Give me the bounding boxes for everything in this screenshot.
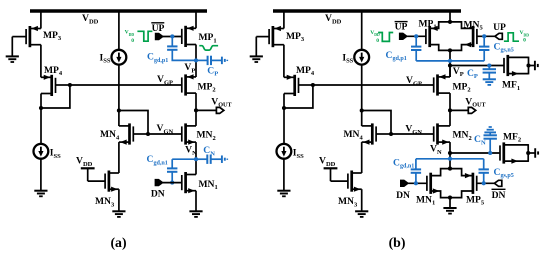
node DN label (b)	[396, 190, 410, 201]
node VDD tick label MN3 (b)	[319, 156, 336, 168]
node switch top junction bottom (b)	[448, 167, 452, 171]
transistor MN3 (b)	[331, 171, 362, 209]
transistor MP2 (b)	[434, 74, 471, 95]
node VOUT label (a)	[211, 96, 232, 108]
current source ISS bottom (a)	[34, 144, 49, 159]
transistor MP1	[182, 26, 217, 47]
node CP tap (b)	[487, 63, 491, 67]
node Cgd,p1 label (a)	[147, 52, 168, 64]
transistor MN4 (b)	[344, 123, 392, 144]
ground MN3 (a)	[112, 211, 125, 217]
svg-text:0: 0	[131, 38, 134, 44]
node VDD label (b)	[325, 13, 342, 25]
wire VN blue (b)	[416, 158, 484, 160]
node zero level label green (a)	[131, 38, 134, 44]
port DN input (a)	[155, 180, 163, 186]
svg-text:DN: DN	[396, 190, 410, 201]
transistor MP4	[41, 65, 70, 96]
svg-text:UP: UP	[395, 22, 408, 33]
waveform UP-bar pulse (b)	[378, 33, 393, 42]
port VOUT output (b)	[468, 107, 475, 113]
waveform VP glitch (a)	[199, 46, 218, 50]
wire Cgs,n5 top (b)	[483, 36, 485, 46]
wire CP top (b)	[488, 66, 490, 70]
node VGP label (a)	[157, 74, 173, 86]
node MN4 bias junction (b)	[360, 108, 364, 112]
capacitor Cgs,n5	[479, 47, 489, 50]
wire Cgs,p5 bottom (b)	[483, 173, 485, 183]
wire MP1 source to VDD rail (a)	[195, 10, 197, 29]
capacitor CP (b)	[483, 69, 496, 72]
wire MN4 source to MN3 drain (b)	[361, 142, 363, 173]
svg-text:DN: DN	[151, 188, 165, 199]
transistor MN5	[450, 19, 483, 50]
wire MP4 diode loop (a)	[41, 85, 70, 108]
wire Cgd,n1 bottom (b)	[415, 173, 417, 183]
capacitor CN (b)	[484, 135, 497, 138]
ground ISS (b)	[277, 191, 290, 197]
wire ISS to ground (a)	[40, 159, 42, 191]
wire MN4 diode loop (b)	[362, 111, 391, 135]
waveform UP-bar pulse (a)	[137, 31, 152, 41]
wire MN3 gate VDD tick (b)	[324, 168, 338, 181]
svg-text:(a): (a)	[110, 235, 126, 251]
wire MN2 drain to VOUT (b)	[449, 110, 451, 126]
transistor MN4	[100, 123, 148, 144]
transistor MN2	[182, 123, 216, 144]
transistor MF1	[502, 55, 535, 92]
capacitor CN (a)	[207, 155, 210, 164]
wire DN-bar to MP5 gate (b)	[477, 182, 495, 184]
node VP label (b)	[453, 66, 464, 78]
wire CP to ground (b)	[488, 73, 490, 80]
svg-text:0: 0	[376, 38, 379, 44]
svg-text:DN: DN	[492, 190, 506, 201]
svg-text:UP: UP	[493, 22, 506, 33]
wire MN2 drain to VOUT (a)	[195, 110, 197, 126]
wire MN2 source to MN1 drain (a)	[195, 142, 197, 174]
node VN blue junction (b)	[448, 157, 452, 161]
ground MP3 gate (b)	[250, 56, 263, 62]
svg-text:0: 0	[523, 38, 526, 44]
node VP label (a)	[184, 62, 195, 74]
node zero level label green UP-bar (b)	[376, 38, 379, 44]
capacitor CP (a)	[208, 56, 211, 65]
wire UP-bar to MP1 gate (b)	[407, 35, 426, 37]
wire VDD to ISS top (a)	[118, 10, 120, 50]
node MN1 gate tap (a)	[170, 181, 174, 185]
node CN tap (b)	[488, 151, 492, 155]
wire Cgd,p1 top (a)	[171, 36, 173, 46]
node MN1 gate tap (b)	[414, 181, 418, 185]
wire DN to MN1 gate (b)	[408, 182, 427, 184]
node VOUT junction (a)	[194, 108, 198, 112]
node VN junction (a)	[194, 157, 198, 161]
port DN input (b)	[401, 180, 409, 186]
capacitor Cgd,n1 (b)	[411, 169, 421, 172]
wire MN5 gate to UP (b)	[477, 35, 495, 37]
wire MP1 drain to VP (a)	[195, 45, 197, 78]
wire CN to ground (a)	[211, 158, 222, 160]
node ISS top label (b)	[342, 52, 353, 64]
transistor MP5	[450, 169, 485, 207]
wire MP4 drain down (a)	[40, 94, 42, 145]
current source ISS top (a)	[112, 50, 127, 65]
wire DN to MN1 gate (a)	[163, 182, 182, 184]
node Vdd level label green UP-bar (b)	[370, 30, 380, 37]
node Cgd,p1 label (b)	[386, 50, 407, 62]
ground CN upside (b)	[484, 127, 496, 132]
ground MF1	[535, 61, 538, 71]
wire VN left (a)	[172, 158, 196, 160]
wire Cgd,p1 to VP blue (b)	[415, 50, 417, 61]
port DN-bar input (b)	[494, 180, 501, 186]
ground bottom switch (b)	[443, 208, 456, 214]
wire Cgs,p5 top blue (b)	[483, 159, 485, 170]
transistor MN2 (b)	[434, 123, 472, 144]
ground MF2	[535, 148, 538, 158]
node CN label (a)	[203, 145, 215, 157]
node VDD tick label MN3 (a)	[76, 156, 93, 168]
node switch bottom junction (b)	[448, 48, 452, 52]
wire VGP (b)	[313, 84, 434, 86]
current source ISS bottom (b)	[277, 144, 292, 159]
wire CN bottom (b)	[489, 139, 491, 153]
port UP input (b)	[495, 33, 502, 39]
wire VN to CN (a)	[196, 158, 207, 160]
wire VDD rail (b)	[273, 9, 461, 12]
wire CN to ground (b)	[489, 132, 491, 135]
wire ISS to ground (b)	[283, 159, 285, 191]
wire MP3 source to VDD rail (b)	[283, 10, 285, 29]
wire VDD to ISS top (b)	[361, 10, 363, 50]
port UP-bar input (b)	[400, 33, 408, 39]
node MN5 gate tap (b)	[482, 34, 486, 38]
node ISS top label (a)	[100, 52, 111, 64]
node VN label (a)	[185, 145, 197, 157]
capacitor Cgd,p1 (b)	[411, 47, 421, 50]
ground MN3 (b)	[355, 211, 368, 217]
node CN label (b)	[474, 134, 486, 146]
wire MP3 drain to MP4 source (b)	[283, 45, 285, 78]
wire switch to VP (b)	[449, 50, 451, 77]
wire VGN (b)	[391, 133, 434, 135]
wire VP blue (b)	[416, 60, 484, 62]
node DN-bar label (b)	[492, 189, 506, 201]
wire MP3 source to VDD rail (a)	[40, 10, 42, 29]
wire MN3 source to ground (a)	[118, 189, 120, 211]
transistor MN1 (b)	[416, 169, 450, 207]
capacitor Cgd,p1 (a)	[167, 46, 177, 49]
node VDD label (a)	[82, 13, 99, 25]
wire VOUT (b)	[450, 109, 468, 111]
node VGP label (b)	[406, 75, 422, 87]
node MP1 gate tap (b)	[414, 34, 418, 38]
node Vdd level label green UP (b)	[520, 30, 530, 37]
wire VOUT (a)	[196, 109, 216, 111]
wire MP3 drain to MP4 source (a)	[40, 45, 42, 78]
wire VN to switch (b)	[449, 153, 451, 169]
node VOUT junction (b)	[448, 108, 452, 112]
node CP label (a)	[207, 65, 218, 77]
node Vdd level label green (a)	[125, 30, 135, 37]
node VP black junction (b)	[448, 63, 452, 67]
port UP-bar input (a)	[155, 33, 163, 39]
node Cgd,n1 label (b)	[393, 157, 414, 169]
wire ISS top to MN4 (a)	[118, 65, 120, 126]
transistor MN3	[88, 171, 119, 209]
node circuit label (b)	[389, 235, 406, 251]
wire MP2 source to VP (b)	[449, 66, 451, 78]
node VN junction (b)	[448, 151, 452, 155]
node UP-bar label (a)	[151, 23, 164, 34]
transistor MP3 (b)	[256, 26, 305, 47]
node Cgs,n5 label (b)	[494, 41, 514, 53]
node UP label (b)	[493, 22, 506, 33]
wire VDD rail (a)	[30, 9, 207, 12]
node DN label (a)	[151, 188, 165, 199]
wire Cgd,p1 to VP (a)	[172, 50, 196, 61]
ground ISS (a)	[34, 191, 47, 197]
node MP1 gate tap (a)	[170, 34, 174, 38]
node MN4 gate junction VGN (b)	[389, 132, 393, 136]
node VN label (b)	[430, 144, 442, 156]
wire ISS top to MN4 (b)	[361, 65, 363, 126]
capacitor Cgs,p5	[479, 169, 489, 172]
wire MN3 gate VDD tick (a)	[81, 168, 95, 181]
node MP4 drain junction (b)	[282, 106, 286, 110]
node Cgs,p5 label (b)	[494, 167, 514, 179]
node VP junction (a)	[194, 58, 198, 62]
transistor MF2	[500, 131, 535, 163]
wire MN1 source to ground (a)	[195, 191, 197, 212]
capacitor Cgd,n1 (a)	[167, 168, 177, 171]
wire CP to ground (a)	[211, 59, 222, 61]
transistor MP3	[12, 26, 62, 47]
node CP label (b)	[467, 68, 478, 80]
wire VGP (a)	[70, 84, 182, 86]
wire MN4 diode loop (a)	[119, 111, 148, 135]
node Cgd,n1 label (a)	[147, 154, 168, 166]
transistor MP2	[182, 74, 216, 95]
wire MP3 gate to ground (a)	[11, 37, 13, 57]
transistor MP4 (b)	[284, 65, 315, 96]
node switch bottom junction bottom (b)	[448, 196, 452, 200]
node ISS bottom label (a)	[50, 148, 61, 160]
wire MN3 source to ground (b)	[361, 189, 363, 211]
wire VP to CP (a)	[196, 59, 208, 61]
wire MP2 drain to VOUT (a)	[195, 93, 197, 110]
wire MP4 drain down (b)	[283, 94, 285, 145]
wire VN black to MF2 (b)	[450, 152, 500, 154]
svg-text:(b): (b)	[389, 235, 406, 251]
node zero level label green UP (b)	[523, 38, 526, 44]
current source ISS top (b)	[354, 50, 369, 65]
node MP5 gate tap (b)	[482, 181, 486, 185]
wire Cgd,n1 top blue (b)	[415, 159, 417, 170]
node MP4 gate junction VGP (b)	[311, 83, 315, 87]
transistor MP1 (b)	[419, 18, 451, 50]
wire MP4 diode loop (b)	[284, 85, 313, 108]
wire VGN (a)	[148, 133, 182, 135]
wire VDD to switch top node (b)	[449, 10, 451, 22]
node MP4 drain junction (a)	[39, 106, 43, 110]
node circuit label (a)	[110, 235, 126, 251]
node ISS bottom label (b)	[293, 148, 304, 160]
node VP blue junction (b)	[448, 59, 452, 63]
wire switch to ground (b)	[449, 198, 451, 208]
wire MP3 gate to ground (b)	[255, 37, 257, 57]
node MN4 gate junction VGN (a)	[146, 132, 150, 136]
wire UP-bar to MP1 gate (a)	[163, 36, 182, 38]
node VGN label (a)	[157, 123, 174, 135]
wire Cgd,n1 top (a)	[171, 159, 173, 168]
wire Cgs,n5 to VP blue (b)	[483, 50, 485, 61]
node VGN label (b)	[405, 124, 422, 136]
wire VP black to MF1 (b)	[450, 65, 504, 67]
wire Cgd,p1 top (b)	[415, 36, 417, 46]
node UP-bar label (b)	[395, 22, 408, 33]
svg-text:UP: UP	[152, 23, 165, 34]
wire MP2 drain to VOUT (b)	[449, 93, 451, 110]
ground MP3 gate (a)	[6, 56, 19, 62]
node VOUT label (b)	[465, 96, 486, 108]
ground CN (a)	[222, 155, 227, 163]
ground CP (a)	[222, 57, 227, 65]
waveform UP pulse (b)	[504, 33, 519, 41]
wire MN2 source to VN (b)	[449, 142, 451, 153]
ground CP (b)	[483, 79, 496, 85]
node MP4 gate junction VGP (a)	[68, 83, 72, 87]
ground MN1 (a)	[189, 211, 202, 217]
wire MN4 source to MN3 drain (a)	[118, 142, 120, 173]
node MN4 bias junction (a)	[117, 108, 121, 112]
transistor MN1	[182, 172, 218, 193]
port VOUT output (a)	[216, 107, 223, 113]
wire Cgd,n1 to DN (a)	[171, 172, 173, 183]
node switch top junction (b)	[448, 20, 452, 24]
